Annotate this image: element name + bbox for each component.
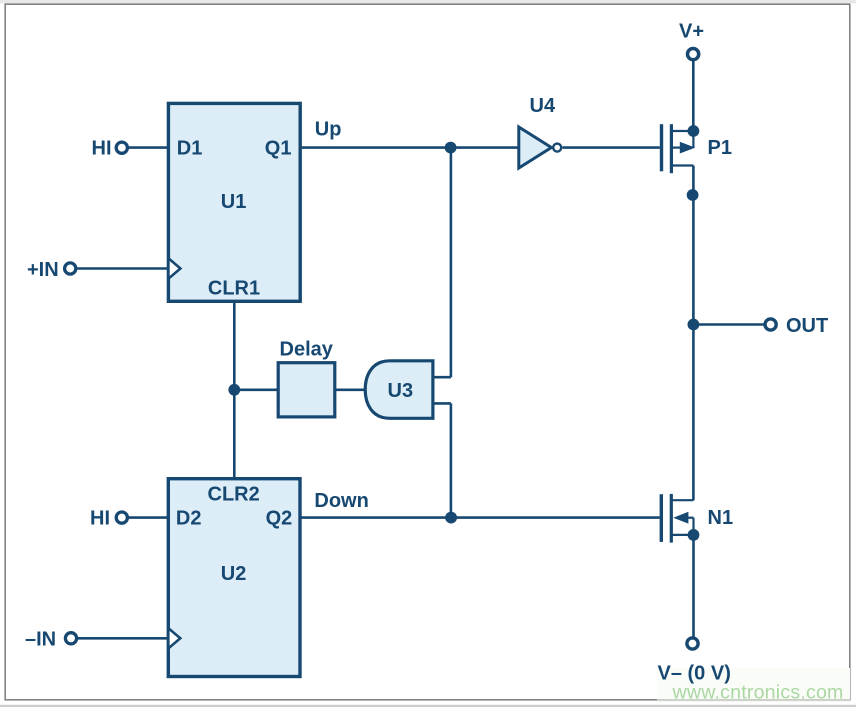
power terminal V- bbox=[687, 638, 698, 649]
wire: HI to D2 bbox=[129, 516, 169, 519]
wire: N1 source to V- bbox=[692, 535, 695, 637]
wire: U4 output to P1 gate bbox=[562, 146, 659, 149]
svg-text:OUT: OUT bbox=[786, 315, 828, 337]
wire: +IN to U1 clock bbox=[77, 267, 169, 270]
terminal OUT bbox=[765, 319, 776, 330]
P1 channel bar bbox=[670, 124, 673, 173]
svg-text:HI: HI bbox=[92, 138, 112, 160]
wire: Q2 to N1 gate bbox=[300, 516, 660, 519]
N1 source stub bbox=[671, 534, 693, 536]
P1 source stub bbox=[671, 130, 693, 132]
svg-text:V+: V+ bbox=[679, 21, 704, 43]
svg-text:U4: U4 bbox=[530, 95, 556, 117]
wire: -IN to U2 clock bbox=[78, 637, 169, 640]
U1 clock wedge bbox=[168, 258, 180, 278]
terminal HI (bottom) bbox=[116, 512, 127, 523]
svg-text:U1: U1 bbox=[221, 191, 247, 213]
flip-flop U2 bbox=[168, 479, 300, 677]
svg-text:N1: N1 bbox=[708, 507, 734, 529]
svg-text:–IN: –IN bbox=[25, 629, 56, 651]
U3 input stub (bottom) bbox=[433, 402, 451, 405]
and-gate U3 (facing left) bbox=[365, 361, 433, 419]
svg-text:U3: U3 bbox=[388, 380, 414, 402]
svg-text:P1: P1 bbox=[708, 137, 732, 159]
N1 drain stub bbox=[671, 499, 693, 501]
wire: CLR junction to Delay bbox=[234, 388, 278, 391]
node: Up junction bbox=[445, 142, 457, 154]
svg-text:+IN: +IN bbox=[27, 259, 59, 281]
N1 channel bar bbox=[670, 494, 673, 543]
delay block bbox=[278, 363, 335, 417]
P1 body arrow bbox=[671, 147, 681, 149]
inverter U4 bubble bbox=[553, 144, 561, 152]
wire: V+ to P1 source bbox=[692, 61, 695, 131]
svg-text:D2: D2 bbox=[176, 508, 202, 530]
svg-text:HI: HI bbox=[90, 508, 110, 530]
terminal HI (top) bbox=[116, 142, 127, 153]
svg-text:www.cntronics.com: www.cntronics.com bbox=[672, 681, 844, 703]
svg-text:Q2: Q2 bbox=[266, 508, 293, 530]
wire: Delay to U3 output bbox=[335, 388, 367, 391]
U3 input stub (top) bbox=[433, 376, 451, 379]
svg-text:U2: U2 bbox=[221, 563, 247, 585]
node: dot below P1 bbox=[687, 189, 699, 201]
node: P1 source junction bbox=[688, 125, 700, 137]
transistor P1 bbox=[662, 124, 700, 173]
flip-flop U1 bbox=[168, 103, 300, 301]
svg-text:Down: Down bbox=[314, 490, 368, 512]
U2 clock wedge bbox=[168, 628, 180, 648]
N1 gate bar bbox=[660, 494, 663, 542]
wire: Q1 to inverter U4 bbox=[300, 146, 519, 149]
wire: U3 bottom input down to Down line bbox=[450, 403, 453, 517]
node: CLR junction bbox=[228, 384, 240, 396]
node: Down junction bbox=[445, 512, 457, 524]
P1 gate bar bbox=[660, 124, 663, 171]
svg-text:Up: Up bbox=[315, 119, 342, 141]
wire: CLR1 to CLR2 bbox=[233, 301, 236, 478]
node: N1 source junction bbox=[688, 529, 700, 541]
N1 body arrow bbox=[673, 512, 688, 524]
terminal +IN bbox=[65, 263, 76, 274]
node: OUT junction bbox=[688, 319, 700, 331]
inverter U4 bbox=[519, 127, 552, 168]
svg-text:Q1: Q1 bbox=[265, 138, 292, 160]
svg-text:Delay: Delay bbox=[280, 338, 334, 360]
svg-text:CLR2: CLR2 bbox=[208, 484, 260, 506]
svg-text:CLR1: CLR1 bbox=[208, 277, 260, 299]
P1 drain stub bbox=[671, 164, 693, 166]
wire: OUT bbox=[693, 323, 763, 326]
frame (decorative) bbox=[0, 0, 856, 3]
wire: HI to D1 bbox=[129, 146, 168, 149]
terminal -IN bbox=[65, 633, 76, 644]
wire: Up junction down to U3 input bbox=[450, 148, 453, 378]
transistor N1 bbox=[661, 494, 699, 543]
wire: P1 drain down to N1 drain bbox=[692, 166, 695, 501]
svg-text:D1: D1 bbox=[177, 138, 203, 160]
